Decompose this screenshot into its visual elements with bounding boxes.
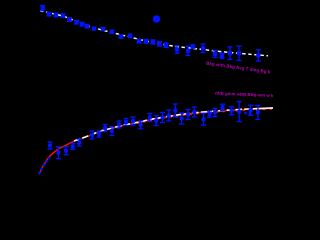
top data point 4 with error bar <box>61 14 66 18</box>
top data point 25 with error bar <box>227 47 232 60</box>
top data point 17 with error bar <box>157 42 162 46</box>
bottom small marker 7 <box>249 112 251 114</box>
top data point 27 with error bar <box>256 50 261 61</box>
bottom data point 28 with error bar <box>248 105 253 115</box>
bottom data point 10 with error bar <box>117 121 122 128</box>
top data point 26 with error bar <box>236 46 241 60</box>
bottom data point 8 with error bar <box>103 125 108 132</box>
bottom data point 23 with error bar <box>207 111 212 117</box>
top data point 21 with error bar <box>190 44 195 48</box>
bottom data point 3 with error bar <box>64 147 69 155</box>
top data point 6 with error bar <box>74 20 79 24</box>
top data point 1 with error bar <box>40 6 45 11</box>
bottom data point 18 with error bar <box>173 104 178 117</box>
bottom fit line final white dash <box>256 107 273 110</box>
top data point 16 with error bar <box>150 40 155 44</box>
top data point 15 with error bar <box>143 39 148 43</box>
bottom small marker 3 <box>43 164 45 166</box>
bottom data point 5 with error bar <box>77 139 82 146</box>
top data point 10 with error bar <box>101 27 106 31</box>
top data point 19 with error bar <box>174 46 179 54</box>
bottom fit curve red dashes under white line <box>130 109 272 125</box>
bottom data point 4 with error bar <box>70 144 75 150</box>
isolated blue data point <box>153 15 161 23</box>
bottom data point 21 with error bar <box>192 107 197 117</box>
top data point 5 with error bar <box>67 18 72 22</box>
bottom data small markers along curve <box>38 112 251 174</box>
bottom data point 22 with error bar <box>201 113 206 125</box>
bottom data point 13 with error bar <box>138 121 143 129</box>
bottom small marker 5 <box>48 157 50 159</box>
top data point 12 with error bar <box>119 35 124 39</box>
bottom fit curve (red) <box>40 108 272 173</box>
top data point 11 with error bar <box>110 30 115 34</box>
bottom small marker 4 <box>45 160 47 162</box>
top data point 20 with error bar <box>185 46 190 55</box>
bottom data point 1 with error bar <box>48 142 53 149</box>
top data point 2 with error bar <box>47 12 52 16</box>
bottom data point 11 with error bar <box>124 119 129 126</box>
bottom data point 7 with error bar <box>97 131 102 137</box>
top data point 13 with error bar <box>128 34 133 38</box>
bottom data point 14 with error bar <box>147 114 152 122</box>
bottom data point 26 with error bar <box>229 107 234 115</box>
top data series (blue markers with error bars) <box>40 6 261 62</box>
bottom data point 29 with error bar <box>255 105 260 119</box>
top data point 9 with error bar <box>92 27 97 31</box>
bottom fit curve (white dashed overlay) <box>74 108 273 141</box>
top data point 3 with error bar <box>54 13 59 17</box>
top data point 18 with error bar <box>163 43 168 48</box>
bottom small marker 2 <box>40 168 42 170</box>
top data point 24 with error bar <box>219 53 224 58</box>
bottom data point 25 with error bar <box>220 104 225 110</box>
top data point 14 with error bar <box>136 39 141 43</box>
bottom data point 16 with error bar <box>160 113 165 123</box>
bottom data point 20 with error bar <box>185 110 190 120</box>
top data point 8 with error bar <box>85 24 90 28</box>
bottom data point 12 with error bar <box>130 117 135 125</box>
bottom data point 17 with error bar <box>166 110 171 121</box>
bottom small marker 1 <box>38 172 40 174</box>
bottom data point 9 with error bar <box>110 127 115 136</box>
top data point 22 with error bar <box>200 44 205 52</box>
top data point 23 with error bar <box>212 50 217 57</box>
bottom data point 6 with error bar <box>90 131 95 139</box>
bottom data point 2 with error bar <box>56 147 61 159</box>
bottom data point 19 with error bar <box>179 113 184 124</box>
bottom small marker 6 <box>244 112 246 114</box>
top data point 7 with error bar <box>80 22 85 26</box>
bottom data point 24 with error bar <box>212 108 217 116</box>
bottom data point 15 with error bar <box>154 116 159 126</box>
bottom data point 27 with error bar <box>237 102 242 122</box>
top fit curve (white dashed) <box>40 11 268 56</box>
bottom data series (blue markers with error bars) <box>48 102 261 159</box>
